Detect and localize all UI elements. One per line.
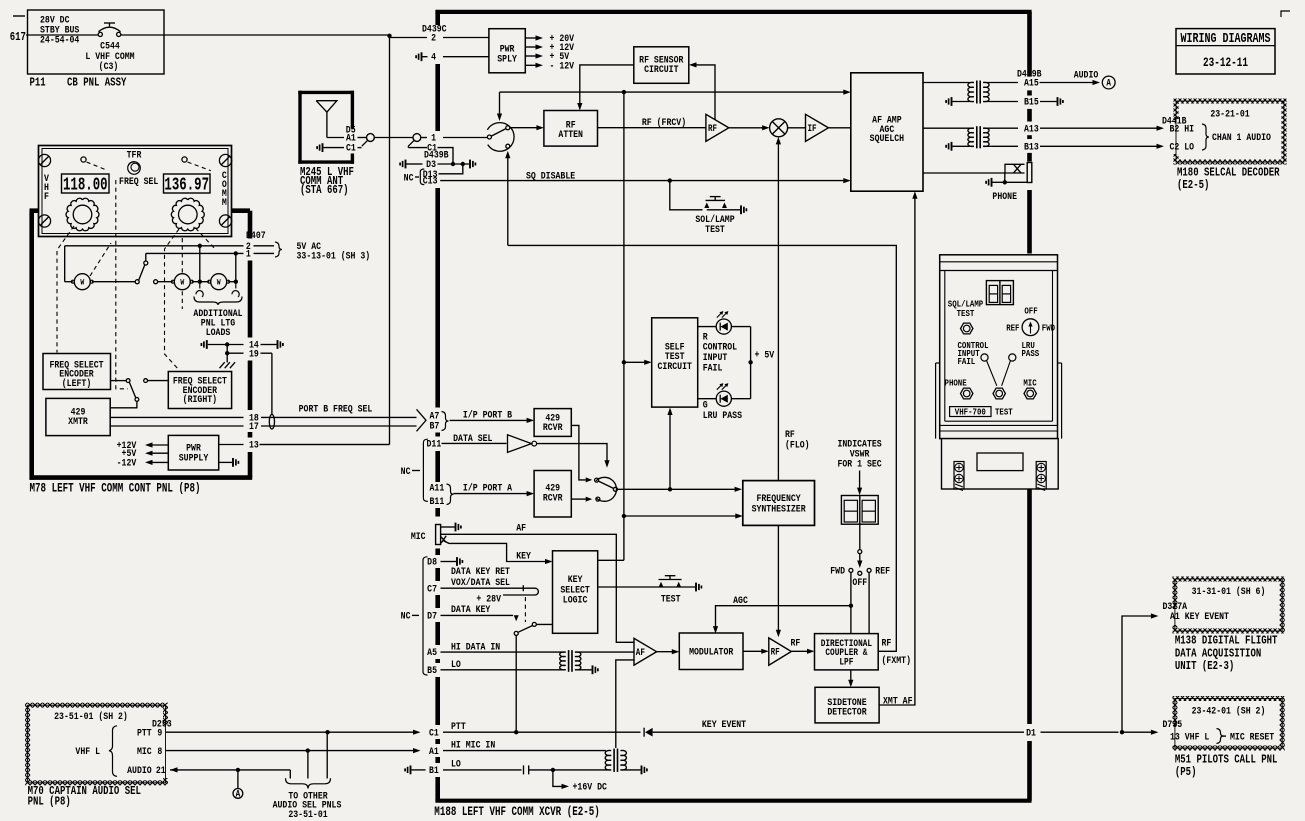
svg-text:FWD: FWD bbox=[830, 565, 845, 577]
lamp dimmer switch bbox=[135, 280, 139, 284]
wire AF amp to modulator bbox=[657, 651, 674, 653]
LED R control input fail bbox=[716, 319, 731, 334]
svg-text:LO: LO bbox=[451, 658, 461, 670]
svg-text:M: M bbox=[222, 196, 227, 208]
M70 CAPTAIN AUDIO SEL hatched box bbox=[28, 705, 166, 783]
svg-text:WIRING DIAGRAMS: WIRING DIAGRAMS bbox=[1181, 30, 1271, 46]
svg-text:17: 17 bbox=[249, 420, 259, 432]
svg-text:(RIGHT): (RIGHT) bbox=[183, 393, 217, 405]
svg-text:D439B: D439B bbox=[1017, 68, 1042, 80]
svg-text:617: 617 bbox=[10, 31, 26, 44]
test jack bbox=[993, 388, 1005, 399]
wire pin1 bus drop bbox=[235, 253, 237, 281]
mechanical link toggle to transfer switch (dashed) bbox=[116, 180, 128, 389]
wire junction to D439C pin 2 bbox=[389, 35, 391, 38]
frequency display right 136.97 bbox=[164, 174, 211, 193]
wire key select logic to TEST switch bbox=[598, 586, 695, 588]
svg-text:VOX/DATA SEL: VOX/DATA SEL bbox=[451, 576, 510, 588]
svg-text:CIRCUIT: CIRCUIT bbox=[644, 63, 679, 75]
svg-text:M78 LEFT VHF COMM CONT PNL (P: M78 LEFT VHF COMM CONT PNL (P8) bbox=[30, 482, 201, 496]
mechanical link panel lighting (dashed) bbox=[181, 238, 183, 309]
wire capacitor to mic transformer bbox=[529, 769, 612, 771]
svg-text:(P5): (P5) bbox=[1175, 766, 1197, 779]
port select switch bbox=[596, 477, 616, 501]
svg-text:23-12-11: 23-12-11 bbox=[1203, 55, 1248, 70]
svg-text:B2 HI: B2 HI bbox=[1170, 122, 1195, 134]
pin 18 of D407 bbox=[110, 416, 243, 418]
wire inverter to rcvr select switch bbox=[537, 444, 607, 463]
wire RF SENSOR to RF ATTEN agc bbox=[580, 65, 634, 105]
wire key select bus to synthesizer bbox=[624, 515, 737, 517]
transformer1 primary ground bbox=[953, 101, 974, 103]
svg-text:XMTR: XMTR bbox=[68, 415, 88, 427]
VHF-700 nameplate bbox=[950, 407, 991, 417]
wire audio down to coupler A bbox=[237, 770, 239, 789]
wire key event up to M138 bbox=[1122, 616, 1153, 732]
svg-text:13: 13 bbox=[249, 439, 259, 451]
svg-text:LOADS: LOADS bbox=[206, 326, 231, 338]
RF ATTEN box bbox=[544, 111, 598, 147]
M245 L VHF COMM ANT box bbox=[298, 91, 354, 94]
svg-text:SQ DISABLE: SQ DISABLE bbox=[526, 169, 575, 181]
panel screw bottom-left bbox=[38, 215, 50, 227]
wire LED G to +5V rail bbox=[731, 398, 750, 400]
FREQUENCY SYNTHESIZER box bbox=[743, 481, 815, 526]
pin 2 of D407 bbox=[65, 245, 244, 247]
svg-text:VHF-700: VHF-700 bbox=[955, 407, 986, 418]
shield drain wire pin19 to twisted pair shield bbox=[271, 353, 273, 415]
wire C13 squelch disable to AF AMP bbox=[440, 180, 845, 182]
mic input transformer bbox=[605, 750, 611, 770]
coax cable antenna to xcvr bbox=[374, 137, 413, 139]
+28V jumper to C7 bbox=[503, 588, 538, 595]
pwr supply ground bbox=[219, 461, 232, 463]
panel toggle left bbox=[81, 157, 86, 162]
wire key select logic output bbox=[598, 559, 624, 561]
wire AF AMP audio out 1 bbox=[923, 82, 974, 84]
svg-text:23-51-01 (SH 2): 23-51-01 (SH 2) bbox=[54, 710, 128, 722]
pin C1 antenna ground bbox=[317, 143, 322, 152]
wire T/R relay to RF ATTEN bbox=[510, 127, 538, 129]
svg-text:RF (FRCV): RF (FRCV) bbox=[642, 116, 686, 128]
svg-text:OFF: OFF bbox=[1024, 306, 1037, 317]
svg-text:19: 19 bbox=[249, 347, 259, 359]
svg-text:RF: RF bbox=[882, 637, 892, 649]
SELF TEST CIRCUIT box bbox=[652, 318, 698, 407]
svg-text:TEST: TEST bbox=[995, 407, 1013, 418]
svg-text:RCVR: RCVR bbox=[543, 491, 563, 503]
M138 hatched box bbox=[1175, 579, 1282, 631]
svg-text:-12V: -12V bbox=[117, 456, 137, 468]
svg-text:NC: NC bbox=[404, 171, 414, 183]
svg-text:RF: RF bbox=[708, 123, 717, 134]
wire pin2 down to lamp 1 bbox=[64, 246, 66, 282]
frequency display left 118.00 bbox=[62, 174, 110, 193]
SIDETONE DETECTOR box bbox=[815, 687, 879, 723]
svg-text:FOR 1 SEC: FOR 1 SEC bbox=[837, 458, 882, 470]
svg-text:LOGIC: LOGIC bbox=[563, 594, 588, 606]
svg-text:PNL (P8): PNL (P8) bbox=[28, 795, 71, 808]
svg-text:23-21-01: 23-21-01 bbox=[1210, 108, 1250, 120]
RF amplifier triangle bbox=[706, 114, 729, 141]
phone jack bbox=[961, 388, 973, 399]
wire breaker to M188 pin 2 junction bbox=[121, 34, 390, 36]
svg-text:9: 9 bbox=[157, 726, 162, 738]
svg-text:C2 LO: C2 LO bbox=[1170, 141, 1195, 153]
svg-text:PTT: PTT bbox=[451, 720, 466, 732]
wire ptt stub to other panels bbox=[326, 732, 328, 778]
wire AF AMP audio out 2 bbox=[923, 127, 974, 129]
wire MIC audio to AF node bbox=[441, 534, 634, 642]
wire 28V drop to M78 pin 13 bbox=[389, 35, 391, 445]
SOL/LAMP TEST momentary switch bbox=[706, 199, 726, 201]
pin 4 of D439C with ground bbox=[416, 52, 421, 61]
wire into SELF TEST CIRCUIT bbox=[624, 361, 646, 363]
additional loads hook B bbox=[232, 282, 239, 297]
RF SENSOR CIRCUIT box bbox=[634, 47, 689, 84]
svg-text:118.00: 118.00 bbox=[63, 174, 108, 195]
svg-text:DATA SEL: DATA SEL bbox=[453, 432, 493, 444]
svg-text:MIC: MIC bbox=[411, 530, 426, 542]
svg-text:23-51-01: 23-51-01 bbox=[288, 808, 328, 820]
wire coupler rf out to T/R relay bbox=[508, 245, 897, 651]
control input fail LED bbox=[981, 354, 988, 361]
meter selector knob bbox=[1022, 319, 1039, 336]
wire lamp1 to dimmer switch bbox=[92, 281, 135, 283]
svg-text:TEST: TEST bbox=[957, 308, 975, 319]
AF AMP AGC SQUELCH box bbox=[851, 73, 923, 191]
node rf sensor bus to self test bbox=[622, 90, 626, 94]
PHONE jack plug bbox=[1005, 164, 1025, 173]
brace to 5V AC source bbox=[275, 242, 282, 257]
pin 14 of D407 with grounds bbox=[201, 340, 206, 349]
M188 enclosure thick border bbox=[435, 10, 1031, 14]
mechanical link right knob to right encoder (dashed) bbox=[165, 229, 180, 371]
svg-text:136.97: 136.97 bbox=[164, 174, 209, 195]
svg-text:M138 DIGITAL FLIGHT: M138 DIGITAL FLIGHT bbox=[1175, 635, 1278, 648]
frequency select knob left bbox=[66, 198, 99, 231]
svg-text:(FXMT): (FXMT) bbox=[882, 654, 911, 666]
svg-text:FAIL: FAIL bbox=[703, 361, 723, 373]
PHONE jack sleeve on M188 wall bbox=[1027, 163, 1032, 183]
svg-text:AUDIO: AUDIO bbox=[1074, 69, 1099, 81]
mount screw strip left bbox=[954, 462, 964, 490]
pin B1 mic lo bbox=[405, 766, 410, 775]
pin 1 coax input bbox=[421, 137, 427, 139]
svg-text:HI DATA IN: HI DATA IN bbox=[451, 641, 500, 653]
wire switch to 429 XMTR bbox=[110, 401, 137, 408]
svg-text:D8: D8 bbox=[427, 556, 437, 568]
svg-text:MODULATOR: MODULATOR bbox=[689, 645, 734, 657]
pin 17 of D407 bbox=[110, 425, 243, 427]
mechanical link jumper to data key switch (dashed) bbox=[524, 597, 526, 622]
pin A13 selcal hi bbox=[983, 127, 1018, 129]
pwr supply +12V output bbox=[148, 444, 168, 446]
LED G lru pass bbox=[716, 391, 731, 406]
IF amplifier triangle bbox=[806, 114, 829, 141]
wire label to vswr display bbox=[859, 471, 861, 490]
mechanical link right knob stub (dashed) bbox=[196, 228, 217, 250]
svg-text:OFF: OFF bbox=[852, 576, 867, 588]
wire RF amp to mixer bbox=[729, 127, 764, 129]
wire mixer to IF amp bbox=[788, 127, 806, 129]
svg-text:B13: B13 bbox=[1024, 141, 1039, 153]
lru pass LED bbox=[1009, 354, 1016, 361]
svg-text:DATA KEY: DATA KEY bbox=[451, 603, 491, 615]
panel lamp 2 bbox=[174, 274, 190, 290]
svg-text:SPLY: SPLY bbox=[497, 52, 517, 64]
wire lamp2 to lamp3 bbox=[192, 281, 209, 283]
wire port B to 429 RCVR bbox=[450, 419, 529, 421]
wire LED R to +5V rail bbox=[731, 326, 750, 328]
svg-text:LRU PASS: LRU PASS bbox=[703, 409, 743, 421]
wire rf sensor line to T/R relay bbox=[499, 92, 501, 116]
node squelch disable to sol/lamp test bbox=[668, 178, 672, 182]
pin D3 ground both sides bbox=[400, 160, 405, 169]
mic jack bbox=[1024, 388, 1036, 399]
brace to other audio sel pnls bbox=[286, 778, 331, 788]
svg-text:CB PNL ASSY: CB PNL ASSY bbox=[67, 77, 127, 90]
wire SELF TEST to LED R bbox=[698, 326, 717, 328]
circuit breaker panel P11 box bbox=[28, 10, 165, 74]
svg-text:A1: A1 bbox=[429, 745, 439, 757]
node junction 617/28V to pin13 drop bbox=[387, 34, 391, 38]
svg-text:C1: C1 bbox=[429, 726, 439, 738]
svg-text:VHF L: VHF L bbox=[75, 745, 100, 757]
mechanical link left knob to left encoder (dashed) bbox=[57, 226, 74, 353]
wire port A to 429 RCVR bbox=[454, 493, 529, 495]
chassis ground below pin14/19 bus bbox=[226, 345, 228, 363]
M51 hatched box bbox=[1175, 699, 1282, 749]
TEST momentary switch bbox=[659, 579, 682, 581]
pwr supply +5V output bbox=[148, 452, 168, 454]
mount center cutout bbox=[977, 453, 1023, 471]
wire mic stub to other panels bbox=[307, 751, 309, 779]
svg-text:DATA ACQUISITION: DATA ACQUISITION bbox=[1175, 648, 1261, 661]
svg-text:ATTEN: ATTEN bbox=[558, 128, 583, 140]
panel inner frame bbox=[944, 271, 946, 422]
node +16V feed bbox=[551, 768, 555, 772]
NC bracket for D13/C13 bbox=[420, 169, 424, 185]
pwr supply -12V output bbox=[148, 461, 168, 463]
svg-text:FWD: FWD bbox=[1042, 323, 1055, 334]
svg-text:NC: NC bbox=[401, 610, 411, 622]
429 RCVR box port B bbox=[534, 409, 571, 437]
mic transformer secondary ground bbox=[620, 769, 640, 771]
antenna symbol bbox=[316, 101, 337, 112]
svg-text:PTT: PTT bbox=[137, 726, 152, 738]
wire mic transformer secondary to AF node bbox=[616, 660, 634, 748]
svg-text:LO: LO bbox=[451, 757, 461, 769]
coax connector xcvr side bbox=[413, 134, 421, 142]
svg-text:FAIL: FAIL bbox=[958, 356, 976, 367]
node audio to coupler A bbox=[236, 768, 240, 772]
pwr sply -12V output bbox=[525, 64, 536, 66]
phone jack ground bbox=[986, 178, 991, 187]
panel vswr digits display bbox=[986, 281, 1013, 305]
svg-text:LPF: LPF bbox=[839, 657, 853, 668]
svg-text:B7: B7 bbox=[430, 420, 440, 432]
wire tx RF amp to coupler bbox=[791, 650, 809, 652]
wire rf sensor bus to AF AMP bbox=[500, 91, 846, 93]
wire AF AMP phone out bbox=[923, 172, 1005, 174]
circuit breaker C544 bbox=[98, 32, 102, 36]
brace mic reset bbox=[1217, 729, 1224, 744]
svg-text:PHONE: PHONE bbox=[945, 378, 967, 389]
mechanical link lamp1 to panel (dashed) bbox=[90, 243, 111, 276]
wire REF contact to coupler bbox=[868, 572, 870, 633]
MIC jack bbox=[436, 525, 441, 545]
node lamp bus A bbox=[198, 280, 202, 284]
tx RF amplifier triangle bbox=[769, 638, 792, 665]
panel top band bbox=[940, 261, 1058, 263]
node mic to other panels bbox=[306, 748, 310, 752]
pin A15 audio hi bbox=[983, 82, 1018, 84]
svg-text:CIRCUIT: CIRCUIT bbox=[657, 360, 692, 372]
mount screw strip right bbox=[1036, 462, 1046, 490]
svg-text:D11: D11 bbox=[427, 438, 442, 450]
wire pin2 bus drop bbox=[199, 246, 201, 282]
wire rcvr A to select switch bbox=[571, 498, 586, 500]
wire data key switch to PTT line bbox=[515, 635, 517, 732]
panel screw bottom-right bbox=[219, 215, 231, 227]
svg-text:8: 8 bbox=[157, 745, 162, 757]
svg-text:SQUELCH: SQUELCH bbox=[870, 132, 905, 144]
429 RCVR box port A bbox=[534, 471, 571, 518]
MODULATOR box bbox=[679, 633, 743, 670]
wire MIC key to key select logic bbox=[443, 541, 547, 562]
svg-text:AF: AF bbox=[516, 521, 526, 533]
audio coupler symbol A bottom bbox=[233, 789, 243, 799]
svg-text:MIC RESET: MIC RESET bbox=[1230, 731, 1275, 743]
svg-text:KEY: KEY bbox=[516, 550, 531, 562]
svg-text:I/P PORT B: I/P PORT B bbox=[463, 409, 512, 421]
svg-text:AF: AF bbox=[636, 647, 645, 658]
svg-text:HI MIC IN: HI MIC IN bbox=[451, 739, 496, 751]
wire AGC from coupler to modulator bbox=[716, 606, 851, 629]
svg-text:KEY EVENT: KEY EVENT bbox=[702, 718, 747, 730]
VSWR display bbox=[841, 496, 878, 525]
svg-text:REF: REF bbox=[875, 565, 890, 577]
svg-text:TFR: TFR bbox=[127, 149, 142, 161]
wire rf sensor bus down to self test and synthesizer bbox=[623, 92, 625, 560]
pin D11 data select bbox=[423, 439, 428, 501]
coax connector antenna side bbox=[367, 134, 375, 142]
freq select encoder left box bbox=[43, 354, 111, 390]
node self test tap bbox=[622, 360, 626, 364]
svg-text:W: W bbox=[217, 279, 221, 288]
svg-text:P11: P11 bbox=[30, 77, 46, 90]
M78 control panel face outer bbox=[39, 146, 232, 237]
wire synthesizer LO to mixer bbox=[777, 142, 779, 481]
AF amplifier triangle bbox=[634, 638, 657, 665]
wire audio stub to other panels bbox=[289, 770, 291, 779]
hollow arrow into M188 port B bbox=[417, 409, 427, 431]
wire display to meter switch bbox=[859, 523, 861, 549]
svg-text:B11: B11 bbox=[430, 495, 445, 507]
svg-text:MIC: MIC bbox=[1023, 378, 1036, 389]
svg-text:21: 21 bbox=[156, 764, 166, 776]
svg-text:TEST: TEST bbox=[661, 593, 681, 605]
svg-text:(C3): (C3) bbox=[99, 60, 119, 72]
svg-text:D7: D7 bbox=[427, 610, 437, 622]
svg-text:C13: C13 bbox=[423, 175, 438, 187]
svg-text:A: A bbox=[236, 789, 241, 800]
twisted pair shield oval bbox=[269, 414, 274, 429]
brace chan 1 audio bbox=[1202, 124, 1209, 150]
svg-text:REF: REF bbox=[1006, 323, 1019, 334]
audio output transformer 1 bbox=[968, 82, 974, 101]
data transformer secondary ground bbox=[575, 669, 592, 671]
svg-text:RF: RF bbox=[771, 647, 780, 658]
brace additional panel lighting loads bbox=[194, 297, 242, 306]
M78 control panel face inner bbox=[42, 149, 228, 234]
wire sidetone xmt af to AF AMP bbox=[879, 196, 915, 705]
svg-text:I/P PORT A: I/P PORT A bbox=[463, 481, 512, 493]
VHF-700 radio front panel outline bbox=[940, 255, 1058, 439]
svg-text:CHAN 1 AUDIO: CHAN 1 AUDIO bbox=[1212, 131, 1271, 143]
wire to SOL/LAMP TEST switch bbox=[670, 181, 703, 210]
svg-text:UNIT (E2-3): UNIT (E2-3) bbox=[1175, 660, 1234, 673]
wire SELF TEST to LED G bbox=[698, 398, 717, 400]
+5V rail bbox=[750, 327, 752, 399]
additional loads hook A bbox=[196, 282, 203, 297]
svg-text:1: 1 bbox=[246, 248, 251, 260]
panel toggle right bbox=[182, 157, 187, 162]
svg-text:C7: C7 bbox=[427, 582, 437, 594]
wire key event to D1 bbox=[653, 731, 1024, 733]
data input transformer bbox=[560, 652, 566, 670]
svg-text:4: 4 bbox=[431, 51, 436, 63]
wire self test trigger from port A bus bbox=[669, 413, 671, 490]
svg-text:C1: C1 bbox=[346, 142, 356, 154]
svg-text:A1 KEY EVENT: A1 KEY EVENT bbox=[1170, 610, 1229, 622]
svg-text:MIC: MIC bbox=[137, 745, 152, 757]
svg-text:(LEFT): (LEFT) bbox=[62, 377, 91, 389]
wire rcvr B to select switch bbox=[571, 425, 586, 480]
wire transmit rf into T/R relay bbox=[507, 156, 509, 246]
svg-text:FREQ SEL: FREQ SEL bbox=[119, 175, 159, 187]
svg-text:A13: A13 bbox=[1024, 122, 1039, 134]
pin 19 of D407 bbox=[227, 352, 243, 354]
node ptt to other panels bbox=[325, 730, 329, 734]
audio coupler symbol A bbox=[1102, 76, 1115, 89]
svg-text:- 12V: - 12V bbox=[550, 59, 575, 71]
svg-text:DETECTOR: DETECTOR bbox=[827, 706, 867, 718]
panel mounting base bbox=[942, 439, 1059, 489]
svg-text:2: 2 bbox=[431, 32, 436, 44]
svg-text:NC: NC bbox=[401, 465, 411, 477]
meter switch FWD/OFF/REF bbox=[849, 568, 853, 572]
wire key event to M51 bbox=[1122, 731, 1153, 733]
svg-text:PHONE: PHONE bbox=[992, 190, 1017, 202]
svg-text:(STA 667): (STA 667) bbox=[300, 184, 349, 197]
M180 SELCAL DECODER hatched box bbox=[1176, 101, 1284, 162]
svg-text:AUDIO: AUDIO bbox=[127, 764, 152, 776]
svg-text:33-13-01 (SH 3): 33-13-01 (SH 3) bbox=[297, 250, 371, 262]
svg-text:M188 LEFT VHF COMM XCVR (E2-5: M188 LEFT VHF COMM XCVR (E2-5) bbox=[434, 806, 600, 820]
svg-text:A5: A5 bbox=[427, 646, 437, 658]
pin B15 audio lo ground bbox=[983, 101, 1018, 103]
KEY SELECT LOGIC box bbox=[553, 551, 598, 634]
WIRING DIAGRAMS title box bbox=[1176, 29, 1275, 74]
svg-text:SYNTHESIZER: SYNTHESIZER bbox=[752, 502, 806, 514]
svg-text:B15: B15 bbox=[1024, 96, 1039, 108]
encoder transfer switch bbox=[111, 380, 127, 382]
svg-text:(FLO): (FLO) bbox=[785, 438, 810, 450]
led test link lines bbox=[987, 361, 997, 386]
pin 13 of D407 28V input bbox=[219, 444, 244, 446]
